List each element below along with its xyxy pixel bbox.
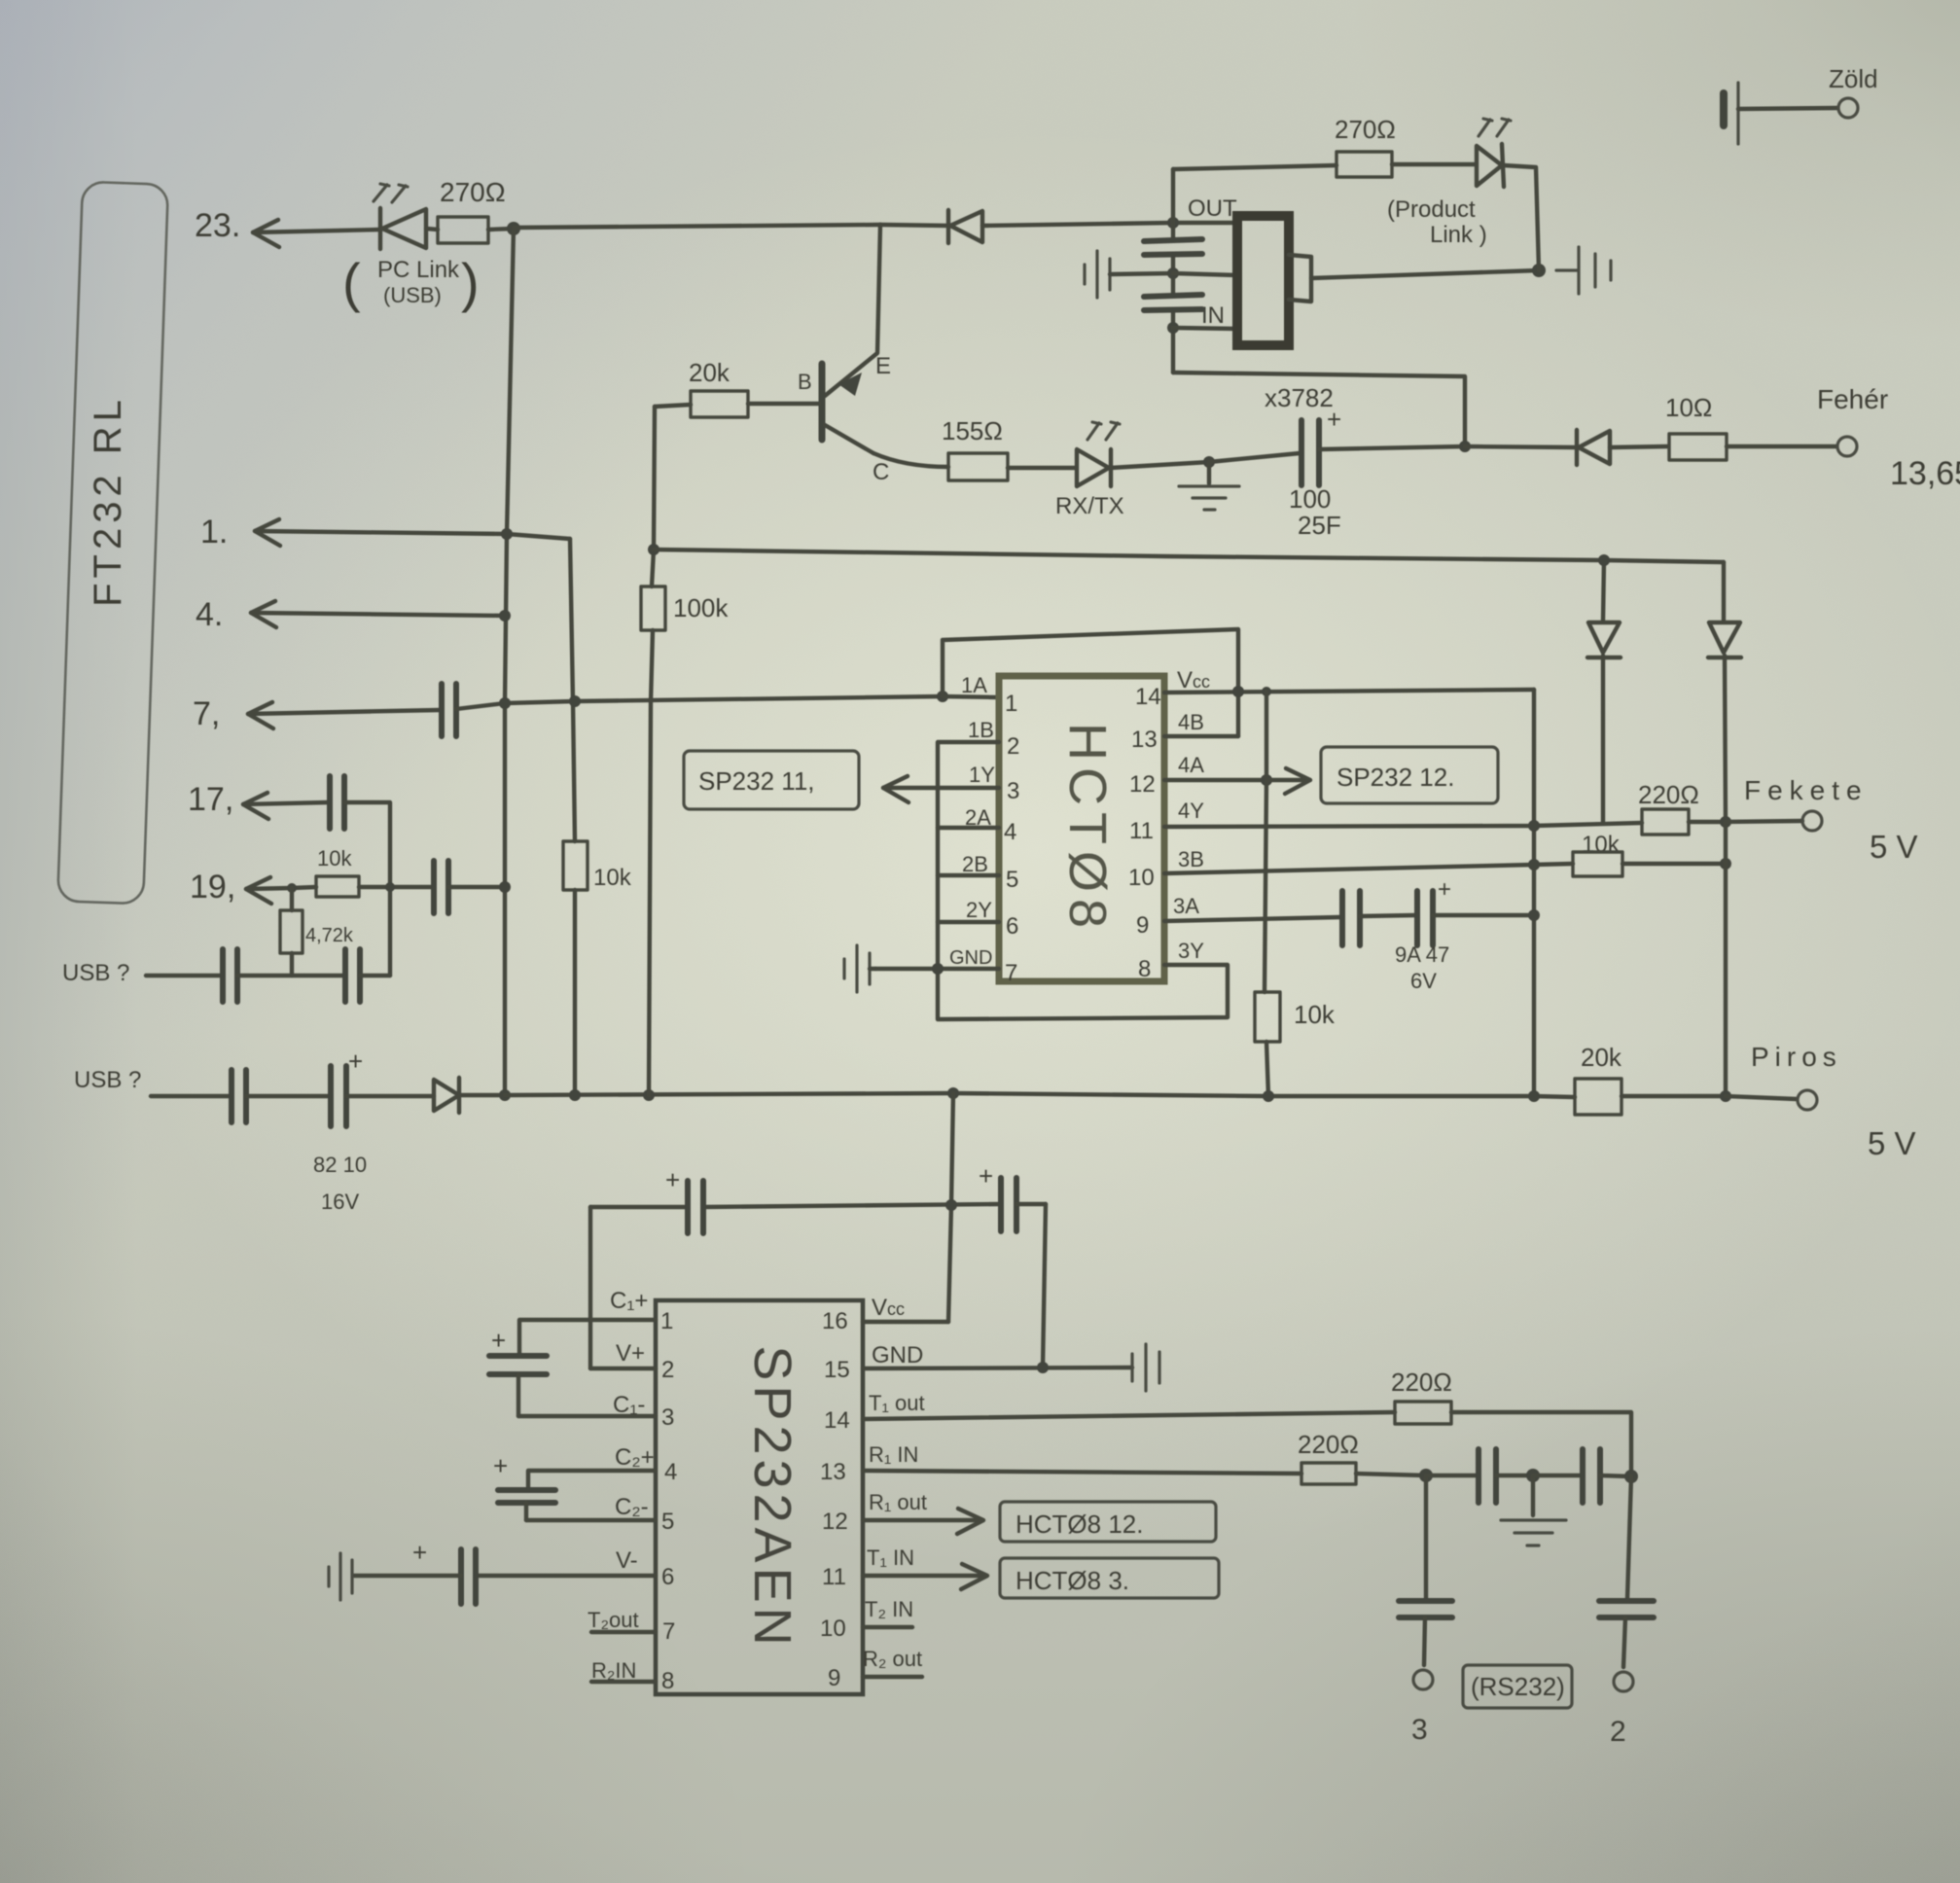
label (PC Link)(USB) [342, 252, 480, 313]
svg-text:4,72k: 4,72k [305, 925, 354, 946]
LED D1 (PC Link) [374, 184, 426, 249]
svg-text:1A: 1A [961, 673, 987, 697]
svg-text:100: 100 [1289, 484, 1331, 514]
svg-text:6: 6 [661, 1564, 674, 1590]
svg-text:16V: 16V [321, 1190, 359, 1214]
capacitor C3 row19 [434, 861, 505, 913]
svg-text:11: 11 [822, 1564, 846, 1590]
svg-text:+: + [491, 1326, 506, 1355]
ground G7 SP232 [1132, 1344, 1159, 1391]
wire pin11 4Y row [1164, 823, 1642, 827]
node row1 x V1 [501, 528, 513, 540]
wire pin9 stub [863, 1675, 922, 1679]
wire pin14 Vcc row [1164, 690, 1534, 693]
node piros x Vcc drop [947, 1087, 959, 1099]
node piros x 10k [1263, 1090, 1274, 1102]
svg-text:+: + [348, 1047, 363, 1076]
svg-text:+: + [665, 1165, 680, 1194]
node pin14 x 10k vertical [1262, 687, 1271, 696]
svg-text:3: 3 [1411, 1714, 1428, 1746]
svg-text:9A 47: 9A 47 [1395, 942, 1449, 967]
label 100 25F [1289, 484, 1341, 540]
svg-text:Vcc: Vcc [872, 1295, 905, 1321]
svg-text:270Ω: 270Ω [1335, 115, 1396, 144]
capacitor C16 V- [354, 1538, 476, 1604]
wire HCT08 pin1 top frame [943, 629, 1238, 736]
svg-text:USB ?: USB ? [74, 1067, 141, 1093]
ground G8 below [1501, 1475, 1566, 1545]
diode D7 pointing down (x1772) [1708, 562, 1741, 822]
svg-text:1: 1 [1005, 691, 1017, 717]
resistor R3 10k horizontal [316, 876, 432, 897]
svg-text:10: 10 [820, 1616, 846, 1642]
svg-text:2Y: 2Y [966, 898, 992, 922]
wire pin16 Vcc row [863, 1320, 948, 1324]
capacitor C13 top right + [979, 1161, 1046, 1231]
label 9A 47 6V [1395, 942, 1449, 993]
node gnd x C13 [1037, 1362, 1049, 1373]
node rail x 3A row [1528, 909, 1540, 921]
svg-text:4B: 4B [1178, 710, 1204, 734]
diode D8 on Feher row [1465, 430, 1667, 465]
resistor R2 10k vertical [563, 841, 588, 1095]
IC U3 HCT08 box [999, 676, 1164, 981]
svg-text:9: 9 [1136, 912, 1149, 939]
capacitor C17 [1426, 1449, 1533, 1503]
svg-text:SP232 11,: SP232 11, [698, 766, 815, 796]
node row7 x V1 [499, 697, 511, 709]
wire down to cap C19 [1627, 1476, 1631, 1599]
terminal 2 [1614, 1672, 1633, 1691]
node caprow x Vcc drop [945, 1199, 957, 1211]
node right of box [1532, 264, 1546, 277]
capacitor C14 (C1) [489, 1326, 547, 1416]
wire pin13 R1IN row [863, 1471, 1301, 1474]
capacitor C20 [1399, 1601, 1452, 1665]
svg-text:7: 7 [662, 1618, 675, 1645]
svg-text:Zöld: Zöld [1829, 64, 1878, 93]
node pin12 junction [1261, 774, 1272, 786]
svg-text:Vcc: Vcc [1177, 667, 1210, 693]
svg-text:FT232 RL: FT232 RL [87, 395, 129, 607]
svg-text:+: + [493, 1451, 508, 1480]
node row19 x r4 [287, 883, 297, 893]
resistor R15 220ohm [1301, 1463, 1426, 1484]
svg-text:+: + [1327, 405, 1341, 434]
wire IN row to box [1173, 328, 1237, 329]
svg-text:OUT: OUT [1188, 195, 1237, 222]
node rail x gnd row [1167, 267, 1179, 279]
resistor R1 270ohm [426, 217, 514, 243]
node 10k x vert [1720, 858, 1731, 870]
wire row 1 [255, 519, 570, 546]
wire OUT row [1173, 221, 1237, 225]
wire down to cap C20 [1424, 1475, 1428, 1599]
resistor R8 270ohm top [1336, 152, 1475, 177]
svg-text:(USB): (USB) [383, 283, 442, 307]
wire pin14 T1OUT row [863, 1412, 1395, 1419]
svg-text:Link ): Link ) [1430, 222, 1487, 248]
svg-text:+: + [412, 1538, 427, 1567]
svg-text:82 10: 82 10 [313, 1153, 367, 1177]
svg-text:7,: 7, [193, 695, 220, 732]
label HCT08 3. box [1000, 1558, 1219, 1598]
wire row 4 [251, 601, 505, 627]
svg-text:): ) [461, 252, 480, 313]
svg-text:17,: 17, [188, 781, 233, 818]
svg-text:HCTØ8 12.: HCTØ8 12. [1016, 1510, 1144, 1539]
capacitor C10 on 3A row [1342, 891, 1415, 945]
wire row USB2 main [505, 1093, 1575, 1097]
svg-text:R₂ out: R₂ out [863, 1647, 922, 1671]
wire pin2 stub [590, 1367, 656, 1370]
svg-text:3A: 3A [1173, 894, 1199, 918]
node x3782 junction [1459, 441, 1471, 452]
resistor R10 10k vertical [1255, 992, 1280, 1042]
svg-text:C: C [873, 459, 889, 485]
node USB2 x V1 [499, 1089, 511, 1101]
wire pin15 GND row [863, 1368, 1132, 1368]
wire pin1 row [519, 1320, 656, 1354]
resistor R11 220ohm [1642, 809, 1726, 835]
wire left loop vertical [588, 1207, 592, 1368]
svg-text:HCTØ8: HCTØ8 [1058, 723, 1117, 935]
node rail x piros row [1528, 1090, 1540, 1102]
wire pin12 row [1164, 778, 1266, 782]
svg-text:B: B [798, 370, 812, 394]
label 8210 16V [313, 1153, 367, 1214]
label SP232 11, box [684, 751, 859, 809]
wire row 7 with capacitor C1 [248, 684, 943, 736]
capacitor C9 (rail lower) [1144, 295, 1202, 310]
wire 100k rail [649, 407, 655, 1095]
svg-text:SP232 12.: SP232 12. [1336, 763, 1454, 792]
diode D2 row USB2 [434, 1078, 505, 1113]
svg-text:4: 4 [1004, 819, 1016, 845]
svg-text:15: 15 [824, 1357, 850, 1383]
node rail x 3B row [1528, 859, 1540, 870]
wire pin10 stub [863, 1625, 912, 1629]
resistor R6 100k vertical [641, 586, 665, 630]
svg-text:USB ?: USB ? [62, 960, 129, 986]
svg-text:Fekete: Fekete [1744, 775, 1869, 805]
label HCT08 12. box [1000, 1502, 1216, 1542]
wire pin9 3A row [1164, 917, 1340, 921]
svg-text:20k: 20k [689, 358, 731, 387]
svg-text:5: 5 [661, 1509, 674, 1535]
wire box bottom loop [1173, 373, 1465, 446]
svg-text:GND: GND [949, 947, 992, 969]
svg-text:13,65: 13,65 [1890, 455, 1960, 492]
ground G1 below collector row [1179, 462, 1239, 510]
wire left rail of box [1171, 169, 1175, 373]
wire vertical V1 [505, 228, 514, 1095]
node row19 x V1 [499, 881, 511, 893]
svg-text:E: E [875, 353, 891, 379]
wire pin5 stub [938, 873, 999, 877]
terminal Zold [1838, 98, 1858, 118]
capacitor C15 (C2) [493, 1451, 555, 1520]
ground G5 HCT08 [844, 945, 870, 992]
wire top 27ohm branch [1173, 165, 1336, 169]
resistor R14 220ohm [1395, 1402, 1631, 1476]
wire to Fekete terminal [1726, 821, 1802, 822]
svg-text:R₁ IN: R₁ IN [869, 1442, 918, 1467]
wire 10k vertical from Vcc [1265, 692, 1268, 1096]
svg-text:7: 7 [1005, 960, 1017, 986]
diode D3 on 23-row [880, 210, 1173, 243]
svg-text:6V: 6V [1410, 969, 1437, 993]
capacitor C7 100 25F [1209, 405, 1465, 485]
svg-text:C₂+: C₂+ [615, 1444, 655, 1471]
svg-text:4Y: 4Y [1178, 799, 1204, 823]
svg-text:IN: IN [1201, 302, 1225, 329]
wire pin8 stub [591, 1680, 656, 1684]
svg-text:2: 2 [1007, 733, 1019, 760]
node R1IN junction [1419, 1469, 1433, 1482]
svg-text:Fehér: Fehér [1817, 384, 1888, 414]
capacitor C12 top left + [665, 1165, 703, 1233]
IC U2 receiver box thick [1237, 216, 1311, 345]
node row4 end [499, 610, 511, 622]
svg-text:11: 11 [1129, 818, 1154, 844]
ground G3 right [1556, 247, 1611, 294]
ground G2 left of box [1085, 251, 1173, 298]
svg-text:Piros: Piros [1751, 1042, 1842, 1072]
svg-text:5 V: 5 V [1868, 1125, 1916, 1161]
wire to Piros terminal [1726, 1096, 1797, 1099]
svg-text:RX/TX: RX/TX [1055, 493, 1124, 519]
svg-text:14: 14 [824, 1407, 850, 1434]
svg-text:PC Link: PC Link [377, 257, 460, 283]
wire pin4 stub [938, 826, 999, 830]
svg-text:20k: 20k [1581, 1043, 1622, 1072]
svg-text:GND: GND [872, 1342, 923, 1368]
svg-text:(Product: (Product [1387, 196, 1476, 223]
terminal Piros [1798, 1090, 1817, 1110]
svg-text:1B: 1B [968, 718, 994, 742]
svg-text:(RS232): (RS232) [1471, 1672, 1565, 1701]
svg-text:SP232AEN: SP232AEN [743, 1345, 802, 1650]
svg-text:V-: V- [616, 1547, 638, 1574]
IC U4 SP232AEN box [656, 1300, 863, 1694]
wire pin4 row [528, 1471, 656, 1488]
svg-text:16: 16 [822, 1308, 848, 1334]
svg-text:6: 6 [1006, 913, 1018, 940]
svg-text:2: 2 [661, 1357, 674, 1383]
svg-text:2B: 2B [962, 852, 988, 876]
svg-text:10Ω: 10Ω [1665, 393, 1712, 422]
IC U1 FT232RL bracket [57, 182, 168, 905]
capacitor C19 [1599, 1601, 1654, 1667]
ground G6 V- [329, 1553, 352, 1600]
svg-text:220Ω: 220Ω [1638, 780, 1699, 809]
svg-text:+: + [1438, 876, 1451, 903]
node row19 x v17 [385, 882, 395, 892]
node center junction [1526, 1469, 1540, 1482]
svg-text:T₂ IN: T₂ IN [865, 1597, 913, 1621]
wire Vcc drop vertical [948, 1093, 953, 1322]
capacitor C11 9A47 6V [1417, 876, 1534, 945]
terminal Fekete [1802, 811, 1822, 831]
wire emitter vertical [825, 225, 880, 396]
node OUT junction [1167, 217, 1179, 229]
arrow pin11 T1IN [863, 1564, 987, 1589]
svg-text:+: + [979, 1161, 993, 1190]
node row2 x d6 [1598, 554, 1610, 566]
wire right vertical to piros [1724, 822, 1728, 1096]
resistor R9 10ohm [1669, 434, 1836, 460]
wire C13 down to GND row [1043, 1204, 1046, 1368]
capacitor C18 [1533, 1449, 1631, 1503]
svg-text:220Ω: 220Ω [1298, 1430, 1359, 1459]
node row7 x V2 [569, 695, 581, 707]
wire +5V rail vertical [1532, 690, 1536, 1096]
svg-text:x3782: x3782 [1265, 383, 1334, 412]
label (Product Link) [1387, 196, 1487, 248]
wire row 17 with capacitor C2 [243, 776, 390, 976]
svg-text:19,: 19, [190, 869, 235, 906]
wire row 19 arrow [246, 877, 316, 904]
node rail x IN row [1167, 322, 1179, 334]
svg-text:12: 12 [822, 1509, 848, 1535]
arrow pin12 to SP232 12 [1266, 768, 1310, 794]
terminal 3 [1413, 1670, 1433, 1689]
wire collector row [873, 453, 948, 467]
svg-text:9: 9 [828, 1665, 840, 1691]
svg-text:10k: 10k [1294, 1000, 1336, 1029]
wire pin7 GND row [875, 967, 999, 971]
node USB2 x V2 [569, 1089, 581, 1101]
svg-text:220Ω: 220Ω [1391, 1368, 1452, 1397]
wire row USB2 left [151, 1070, 329, 1122]
wire pin6 V- row [476, 1574, 656, 1578]
wire pin13 stub [1164, 734, 1238, 738]
LED D4 RX/TX [1077, 422, 1209, 486]
svg-text:10: 10 [1128, 865, 1155, 891]
wire pin8 3Y loop [938, 742, 1228, 1019]
svg-text:25F: 25F [1298, 511, 1341, 540]
wire G5 stub [870, 967, 875, 971]
svg-text:10k: 10k [1582, 832, 1621, 858]
svg-text:270Ω: 270Ω [440, 177, 506, 207]
svg-text:1: 1 [660, 1308, 673, 1334]
svg-text:3B: 3B [1178, 847, 1204, 871]
svg-text:8: 8 [1138, 956, 1151, 982]
svg-text:4A: 4A [1178, 753, 1204, 777]
wire 23-row to OUT [514, 225, 880, 228]
svg-text:13: 13 [1131, 727, 1158, 753]
node right junction [1624, 1470, 1638, 1483]
resistor R13 20k horizontal [1575, 1079, 1726, 1115]
resistor R4 4.7k vertical [280, 888, 303, 976]
capacitor C8 (rail upper) [1144, 239, 1202, 255]
svg-text:(: ( [342, 252, 361, 313]
svg-text:10k: 10k [593, 865, 632, 891]
transistor Q1 [822, 364, 873, 453]
svg-text:T₂out: T₂out [588, 1608, 639, 1632]
svg-text:C₁+: C₁+ [610, 1288, 648, 1314]
node 23-row junction [507, 222, 520, 235]
svg-text:T₁ out: T₁ out [869, 1391, 925, 1415]
svg-text:8: 8 [661, 1668, 674, 1694]
wire row USB1 with caps C4 C5 [146, 949, 390, 1002]
terminal Feher [1837, 437, 1857, 456]
svg-text:C₂-: C₂- [615, 1494, 649, 1520]
svg-text:3: 3 [661, 1404, 674, 1431]
wire box tab to right [1311, 270, 1539, 278]
ground G4 Zold [1724, 83, 1837, 144]
svg-text:5 V: 5 V [1870, 829, 1918, 865]
svg-text:10k: 10k [317, 846, 352, 870]
wire pin1 stub [943, 696, 999, 697]
arrow pin3 1Y to SP232 11 [883, 776, 999, 802]
svg-text:100k: 100k [673, 593, 729, 622]
svg-text:T₁ IN: T₁ IN [867, 1545, 914, 1570]
wire gnd row to box [1173, 273, 1237, 275]
resistor R7 155ohm [948, 453, 1075, 480]
svg-text:HCTØ8 3.: HCTØ8 3. [1016, 1566, 1129, 1595]
node USB2 x R100k rail [643, 1089, 655, 1101]
wire pin10 3B row [1164, 864, 1573, 873]
wire pin3 row [518, 1414, 656, 1418]
wire vertical V2 [570, 539, 575, 841]
label SP232 12. box [1321, 747, 1498, 803]
svg-text:23.: 23. [195, 207, 240, 244]
node rail x 4Y row [1528, 820, 1540, 832]
svg-text:4: 4 [664, 1459, 677, 1485]
node row7 x pin1 frame [937, 691, 948, 702]
svg-text:155Ω: 155Ω [942, 416, 1003, 445]
svg-text:4.: 4. [196, 596, 223, 633]
diode D6 pointing down (x1649) [1587, 560, 1621, 823]
node rail x row2 [648, 544, 659, 555]
svg-text:V+: V+ [616, 1340, 645, 1367]
svg-text:14: 14 [1135, 684, 1161, 710]
svg-text:3Y: 3Y [1178, 939, 1204, 963]
node fekete x d7 [1720, 816, 1731, 828]
node collector x gnd [1203, 456, 1215, 468]
wire row2 long [654, 550, 1724, 562]
label (RS232) box [1463, 1665, 1572, 1708]
wire row 23 arrow [253, 220, 380, 247]
svg-text:R₂IN: R₂IN [591, 1658, 636, 1683]
node gnd x rail [932, 963, 944, 975]
capacitor C6 8210 16V electrolytic [331, 1047, 434, 1126]
resistor R12 10k horizontal [1573, 852, 1726, 876]
wire cap loop row [590, 1204, 999, 1207]
svg-text:2: 2 [1610, 1716, 1626, 1748]
node pin14 x frame [1232, 686, 1244, 697]
svg-text:12: 12 [1129, 771, 1156, 798]
svg-text:R₁ out: R₁ out [869, 1490, 927, 1514]
resistor R5 20k [655, 391, 819, 417]
svg-text:3: 3 [1007, 778, 1019, 804]
wire pin6 stub [938, 920, 999, 924]
wire pin7 stub [591, 1630, 656, 1634]
svg-text:5: 5 [1006, 867, 1018, 893]
svg-text:13: 13 [820, 1459, 846, 1485]
arrow pin12 R1OUT [863, 1509, 983, 1534]
svg-text:1.: 1. [200, 514, 228, 551]
LED D5 Product Link [1477, 119, 1539, 270]
wire pin5 row [526, 1518, 656, 1522]
svg-text:1Y: 1Y [969, 763, 995, 787]
node piros x vert [1720, 1090, 1731, 1102]
